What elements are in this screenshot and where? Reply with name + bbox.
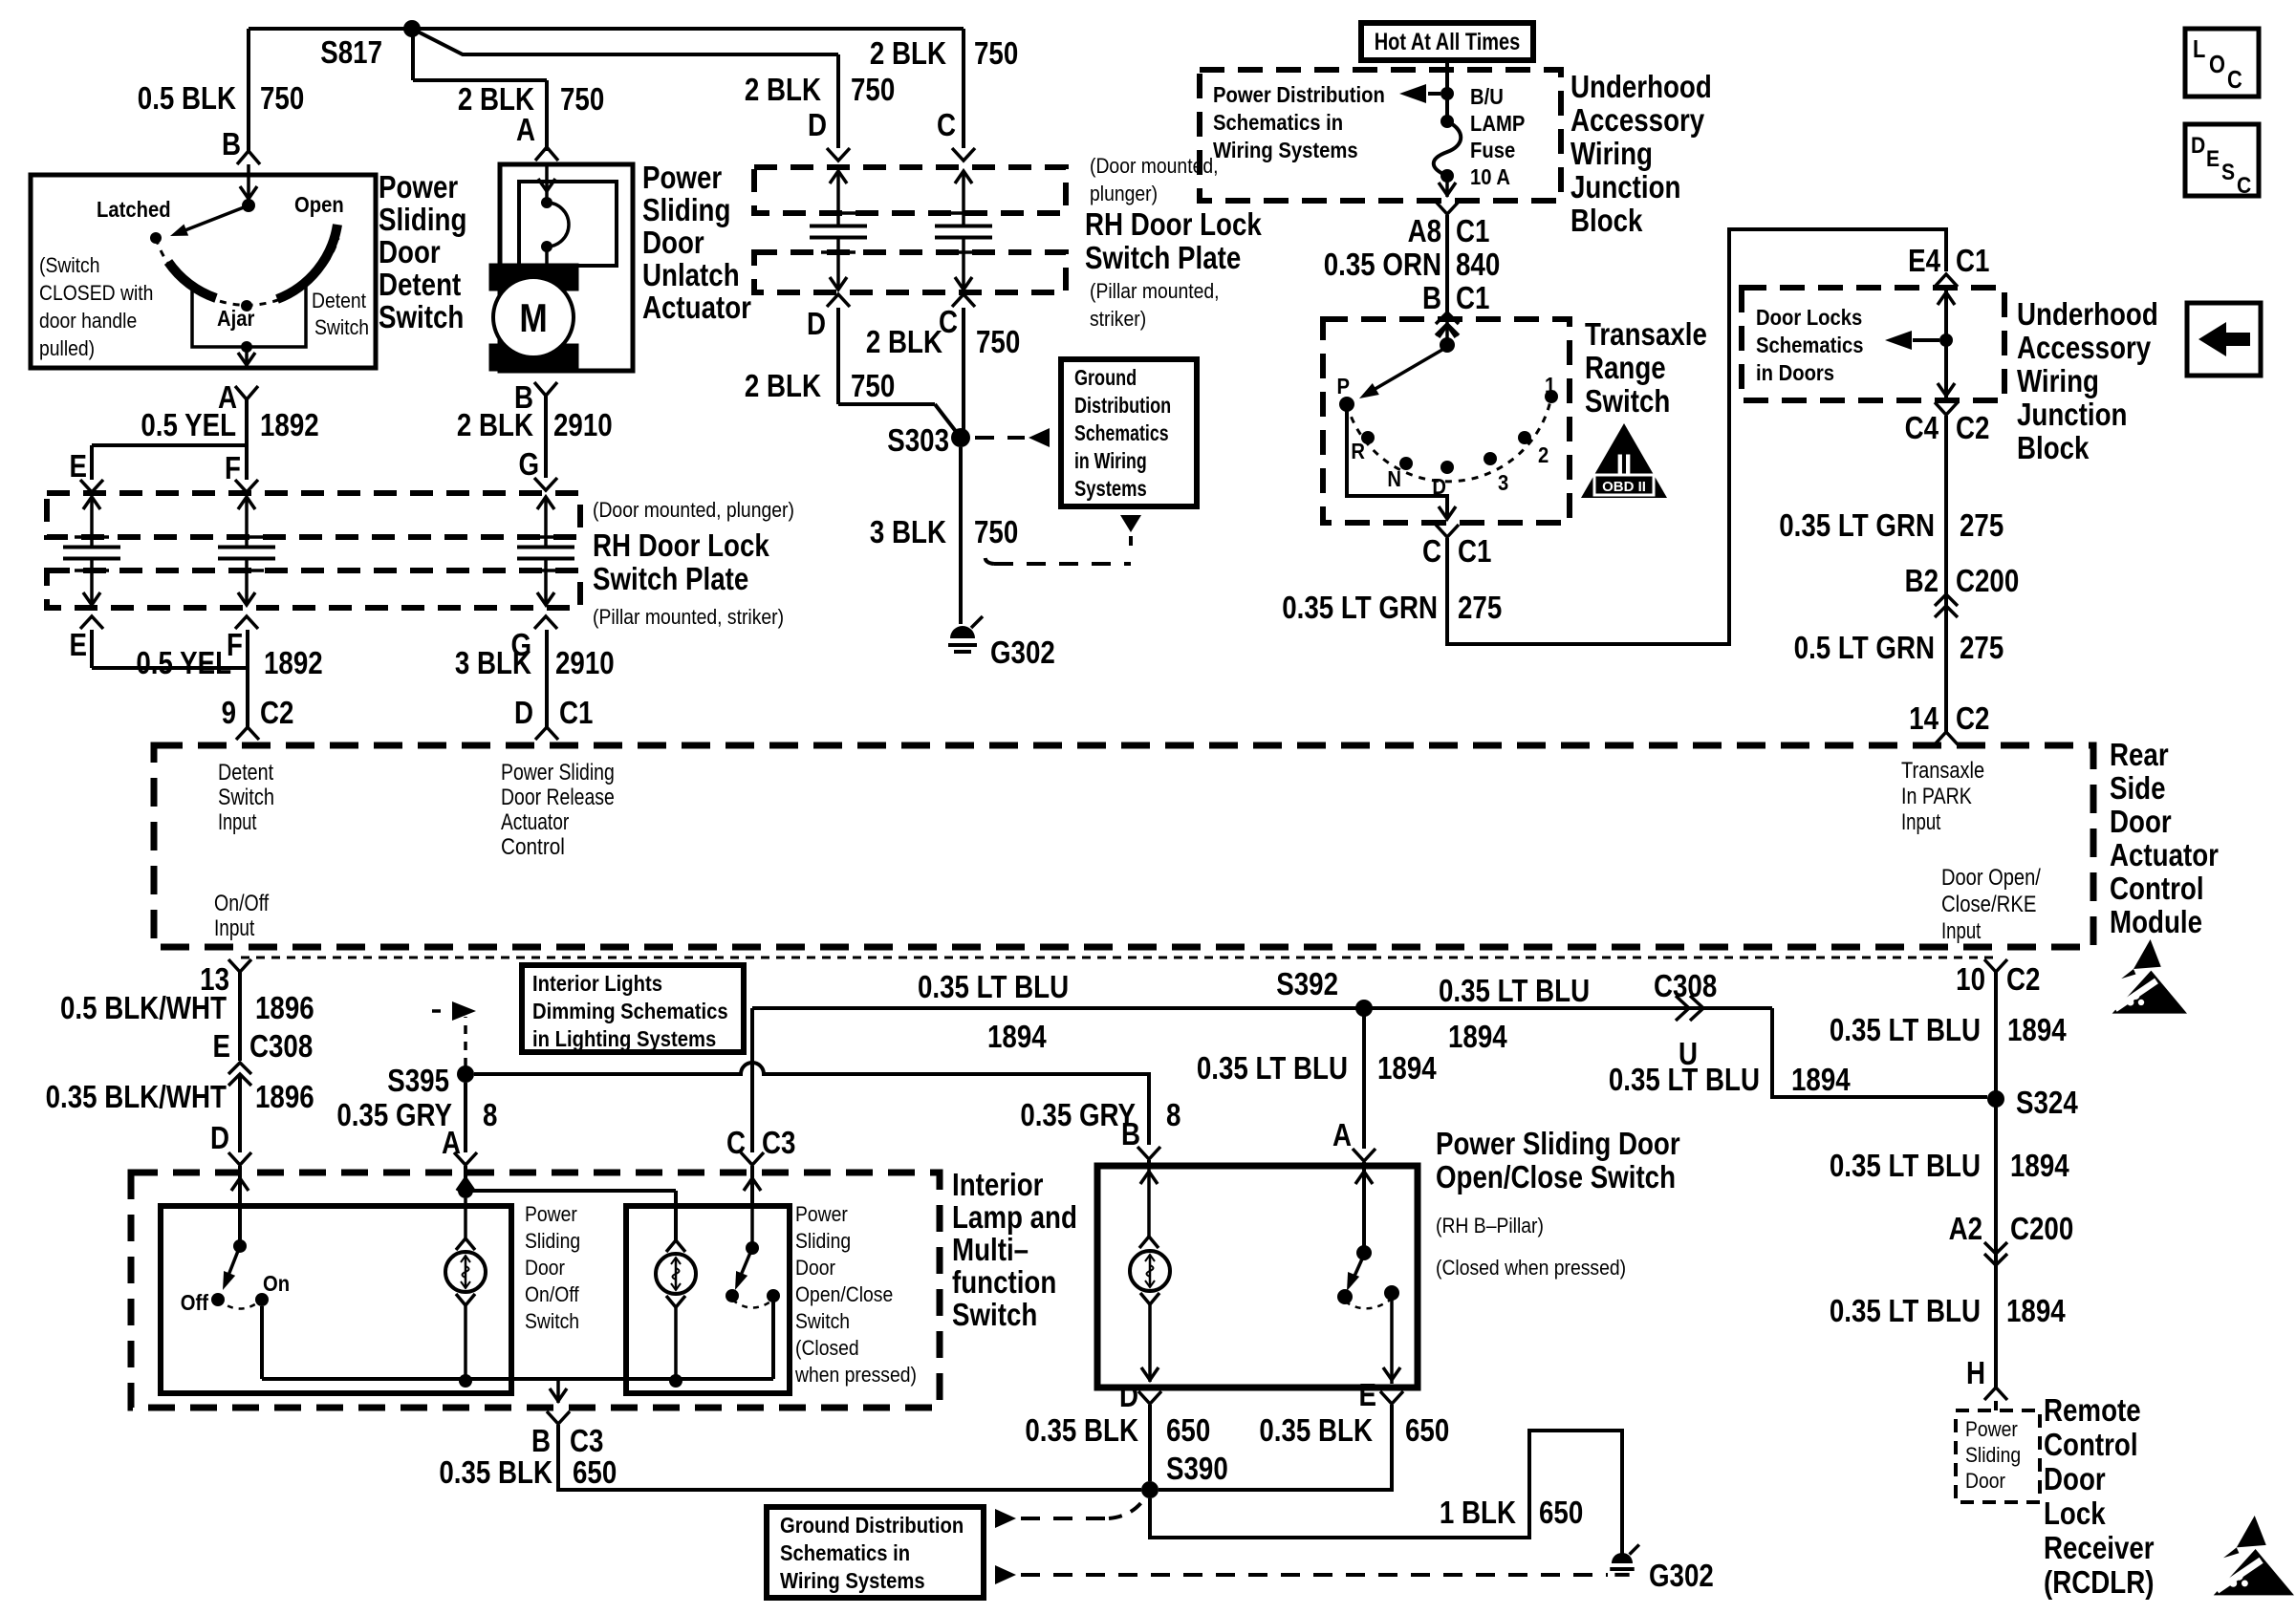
svg-text:Ground Distribution: Ground Distribution — [780, 1513, 964, 1539]
svg-text:B: B — [531, 1424, 551, 1459]
svg-text:Power: Power — [525, 1203, 577, 1226]
svg-text:Hot At All Times: Hot At All Times — [1375, 29, 1521, 55]
svg-text:A8: A8 — [1408, 214, 1441, 249]
svg-text:Control: Control — [501, 834, 565, 860]
svg-text:1894: 1894 — [1448, 1020, 1507, 1055]
svg-text:in Lighting Systems: in Lighting Systems — [532, 1026, 716, 1052]
svg-text:0.35 LT BLU: 0.35 LT BLU — [918, 970, 1069, 1005]
svg-text:LAMP: LAMP — [1470, 111, 1525, 137]
svg-text:C: C — [937, 108, 956, 143]
svg-text:Wiring Systems: Wiring Systems — [1213, 138, 1358, 163]
svg-text:C2: C2 — [260, 696, 293, 731]
svg-text:Block: Block — [1570, 204, 1643, 239]
svg-text:0.35 LT BLU: 0.35 LT BLU — [1609, 1063, 1760, 1098]
svg-text:(Closed: (Closed — [795, 1337, 859, 1360]
svg-text:1894: 1894 — [2010, 1149, 2069, 1184]
svg-text:S817: S817 — [320, 35, 382, 71]
svg-text:door handle: door handle — [39, 310, 137, 333]
svg-text:1: 1 — [1545, 373, 1555, 398]
svg-text:C1: C1 — [559, 696, 593, 731]
svg-text:750: 750 — [560, 82, 604, 118]
svg-text:840: 840 — [1456, 247, 1500, 283]
svg-text:Door: Door — [379, 235, 441, 270]
svg-text:B2: B2 — [1905, 564, 1939, 599]
svg-text:Interior Lights: Interior Lights — [532, 971, 662, 997]
svg-text:Accessory: Accessory — [2017, 331, 2151, 366]
svg-text:2910: 2910 — [553, 408, 613, 443]
svg-text:Power: Power — [1965, 1418, 2018, 1441]
svg-text:C2: C2 — [1956, 411, 1989, 446]
svg-text:O: O — [2209, 51, 2225, 78]
svg-text:8: 8 — [483, 1098, 497, 1133]
svg-text:S392: S392 — [1276, 967, 1338, 1002]
svg-text:C308: C308 — [1654, 969, 1717, 1004]
svg-text:0.5 BLK: 0.5 BLK — [138, 81, 236, 117]
svg-text:Input: Input — [1941, 918, 1982, 944]
svg-text:Switch: Switch — [314, 316, 369, 339]
svg-text:Side: Side — [2110, 771, 2166, 807]
svg-text:Actuator: Actuator — [2110, 838, 2219, 873]
svg-text:275: 275 — [1960, 631, 2004, 666]
svg-text:Systems: Systems — [1074, 476, 1147, 502]
svg-text:650: 650 — [1539, 1496, 1583, 1531]
svg-text:E: E — [70, 628, 87, 663]
svg-text:10 A: 10 A — [1470, 164, 1510, 190]
svg-text:Door: Door — [1965, 1470, 2005, 1493]
svg-text:0.35 ORN: 0.35 ORN — [1324, 247, 1441, 283]
svg-text:750: 750 — [974, 36, 1018, 72]
svg-text:G302: G302 — [990, 635, 1055, 671]
svg-text:Switch: Switch — [952, 1298, 1037, 1333]
svg-text:750: 750 — [851, 73, 895, 108]
svg-text:G302: G302 — [1649, 1559, 1714, 1594]
svg-text:Module: Module — [2110, 905, 2202, 940]
svg-text:0.35 LT GRN: 0.35 LT GRN — [1779, 508, 1935, 544]
svg-text:(RH B–Pillar): (RH B–Pillar) — [1436, 1215, 1544, 1237]
svg-text:Power: Power — [379, 170, 458, 205]
svg-text:0.5 BLK/WHT: 0.5 BLK/WHT — [60, 991, 227, 1026]
svg-text:Door Release: Door Release — [501, 785, 615, 810]
svg-text:Latched: Latched — [97, 197, 171, 223]
svg-text:(RCDLR): (RCDLR) — [2044, 1565, 2154, 1601]
svg-text:C1: C1 — [1956, 244, 1989, 279]
svg-text:Schematics in: Schematics in — [1213, 110, 1343, 136]
svg-text:Lamp and: Lamp and — [952, 1200, 1077, 1236]
svg-text:Ajar: Ajar — [217, 306, 255, 332]
svg-text:E4: E4 — [1908, 244, 1940, 279]
svg-text:Door Open/: Door Open/ — [1941, 865, 2041, 891]
svg-text:(Pillar mounted, striker): (Pillar mounted, striker) — [593, 606, 784, 629]
svg-text:Sliding: Sliding — [642, 193, 730, 228]
svg-text:E: E — [70, 449, 87, 484]
svg-text:Power: Power — [795, 1203, 848, 1226]
svg-text:Junction: Junction — [1570, 170, 1680, 205]
svg-text:H: H — [1966, 1356, 1985, 1391]
svg-text:Power Sliding Door: Power Sliding Door — [1436, 1127, 1680, 1162]
svg-text:14: 14 — [1909, 701, 1939, 737]
svg-text:C3: C3 — [570, 1424, 603, 1459]
svg-text:Detent: Detent — [379, 268, 461, 303]
svg-text:Off: Off — [181, 1290, 209, 1316]
svg-text:0.35 BLK/WHT: 0.35 BLK/WHT — [46, 1080, 227, 1115]
svg-text:Detent: Detent — [312, 290, 366, 312]
svg-text:when pressed): when pressed) — [794, 1364, 917, 1387]
svg-text:Sliding: Sliding — [379, 203, 466, 238]
svg-text:S324: S324 — [2016, 1086, 2078, 1121]
svg-text:1894: 1894 — [1791, 1063, 1851, 1098]
svg-text:Transaxle: Transaxle — [1901, 758, 1984, 784]
svg-text:RH Door Lock: RH Door Lock — [593, 528, 769, 564]
svg-text:Power Sliding: Power Sliding — [501, 760, 615, 785]
svg-text:C200: C200 — [2010, 1212, 2073, 1247]
svg-text:Underhood: Underhood — [2017, 297, 2158, 333]
svg-text:D: D — [210, 1121, 229, 1156]
svg-text:1892: 1892 — [264, 646, 323, 681]
svg-text:1892: 1892 — [260, 408, 319, 443]
svg-text:3 BLK: 3 BLK — [455, 646, 531, 681]
svg-text:2 BLK: 2 BLK — [457, 408, 533, 443]
svg-text:C: C — [2237, 173, 2251, 199]
svg-text:C1: C1 — [1458, 534, 1491, 570]
svg-text:0.35 LT BLU: 0.35 LT BLU — [1439, 974, 1590, 1009]
svg-text:750: 750 — [851, 369, 895, 404]
svg-text:Open: Open — [294, 192, 344, 218]
svg-text:function: function — [952, 1265, 1056, 1301]
svg-text:0.35 LT BLU: 0.35 LT BLU — [1830, 1013, 1981, 1048]
svg-text:F: F — [225, 451, 241, 486]
svg-text:2 BLK: 2 BLK — [745, 369, 821, 404]
svg-text:0.35 LT BLU: 0.35 LT BLU — [1197, 1051, 1348, 1087]
svg-text:1896: 1896 — [255, 1080, 314, 1115]
svg-text:Power Distribution: Power Distribution — [1213, 82, 1385, 108]
svg-text:Ground: Ground — [1074, 365, 1137, 391]
svg-text:Detent: Detent — [218, 760, 274, 785]
svg-text:750: 750 — [976, 325, 1020, 360]
svg-text:(Switch: (Switch — [39, 254, 99, 277]
svg-text:2 BLK: 2 BLK — [745, 73, 821, 108]
svg-text:Range: Range — [1585, 351, 1666, 386]
svg-text:9: 9 — [222, 696, 236, 731]
svg-text:D: D — [808, 108, 827, 143]
svg-text:0.35 BLK: 0.35 BLK — [1025, 1413, 1138, 1449]
svg-text:275: 275 — [1960, 508, 2004, 544]
svg-text:0.35 LT BLU: 0.35 LT BLU — [1830, 1149, 1981, 1184]
svg-text:S395: S395 — [387, 1064, 449, 1099]
svg-text:Wiring: Wiring — [2017, 364, 2099, 399]
svg-text:in Wiring: in Wiring — [1074, 448, 1147, 474]
svg-text:C2: C2 — [1956, 701, 1989, 737]
svg-text:2910: 2910 — [555, 646, 615, 681]
svg-text:(Door mounted, plunger): (Door mounted, plunger) — [593, 499, 794, 522]
svg-text:650: 650 — [1166, 1413, 1210, 1449]
svg-text:Open/Close Switch: Open/Close Switch — [1436, 1160, 1676, 1195]
svg-text:On/Off: On/Off — [214, 891, 270, 916]
svg-text:0.35 LT BLU: 0.35 LT BLU — [1830, 1294, 1981, 1329]
svg-text:1 BLK: 1 BLK — [1440, 1496, 1516, 1531]
svg-text:Input: Input — [218, 809, 257, 835]
svg-text:Wiring: Wiring — [1570, 137, 1653, 172]
svg-text:B: B — [1422, 281, 1441, 316]
svg-text:0.5 YEL: 0.5 YEL — [136, 646, 231, 681]
svg-text:C3: C3 — [762, 1126, 795, 1161]
svg-text:Switch Plate: Switch Plate — [593, 562, 748, 597]
svg-text:0.5 LT GRN: 0.5 LT GRN — [1794, 631, 1935, 666]
svg-text:650: 650 — [573, 1455, 617, 1491]
svg-text:In PARK: In PARK — [1901, 784, 1972, 809]
svg-text:Sliding: Sliding — [1965, 1444, 2021, 1467]
svg-text:Door: Door — [642, 226, 704, 261]
svg-text:Close/RKE: Close/RKE — [1941, 892, 2036, 917]
svg-text:Sliding: Sliding — [525, 1230, 580, 1253]
svg-text:M: M — [519, 296, 547, 341]
svg-text:Interior: Interior — [952, 1168, 1044, 1203]
svg-text:Open/Close: Open/Close — [795, 1283, 893, 1306]
svg-text:C2: C2 — [2006, 962, 2040, 998]
svg-text:0.35 LT GRN: 0.35 LT GRN — [1282, 591, 1438, 626]
svg-text:E: E — [213, 1029, 230, 1065]
svg-text:750: 750 — [974, 515, 1018, 550]
svg-text:Door: Door — [2044, 1462, 2106, 1497]
svg-text:(Pillar mounted,: (Pillar mounted, — [1090, 280, 1220, 303]
svg-text:750: 750 — [260, 81, 304, 117]
svg-text:Underhood: Underhood — [1570, 70, 1712, 105]
svg-text:1896: 1896 — [255, 991, 314, 1026]
svg-text:On: On — [263, 1271, 290, 1297]
svg-text:A: A — [516, 113, 535, 148]
svg-text:C: C — [1422, 534, 1441, 570]
svg-text:Junction: Junction — [2017, 398, 2127, 433]
svg-text:Input: Input — [1901, 809, 1941, 835]
svg-text:D: D — [1119, 1379, 1138, 1414]
svg-text:3: 3 — [1498, 470, 1508, 496]
svg-text:Switch: Switch — [525, 1310, 579, 1333]
svg-text:2: 2 — [1538, 442, 1549, 468]
svg-text:0.35 GRY: 0.35 GRY — [336, 1098, 452, 1133]
svg-text:2 BLK: 2 BLK — [870, 36, 946, 72]
svg-text:A2: A2 — [1949, 1212, 1982, 1247]
svg-text:R: R — [1351, 439, 1365, 464]
svg-text:Distribution: Distribution — [1074, 393, 1171, 419]
svg-text:A: A — [1332, 1118, 1352, 1153]
svg-text:2 BLK: 2 BLK — [866, 325, 942, 360]
svg-text:pulled): pulled) — [39, 337, 95, 360]
svg-text:10: 10 — [1956, 962, 1985, 998]
svg-text:E: E — [2206, 146, 2220, 172]
svg-text:Control: Control — [2110, 872, 2204, 907]
svg-text:Accessory: Accessory — [1570, 103, 1704, 139]
svg-text:Remote: Remote — [2044, 1393, 2141, 1429]
svg-text:Switch: Switch — [379, 300, 464, 335]
svg-text:Sliding: Sliding — [795, 1230, 851, 1253]
svg-text:0.35 GRY: 0.35 GRY — [1020, 1098, 1136, 1133]
svg-text:C200: C200 — [1956, 564, 2019, 599]
svg-text:Input: Input — [214, 915, 255, 941]
svg-text:1894: 1894 — [987, 1020, 1047, 1055]
svg-text:0.35 BLK: 0.35 BLK — [439, 1455, 552, 1491]
svg-text:Lock: Lock — [2044, 1496, 2106, 1532]
svg-text:650: 650 — [1405, 1413, 1449, 1449]
svg-text:1894: 1894 — [2006, 1294, 2066, 1329]
svg-text:S: S — [2221, 160, 2235, 185]
svg-text:RH Door Lock: RH Door Lock — [1085, 207, 1262, 243]
svg-text:Schematics: Schematics — [1074, 420, 1169, 446]
svg-text:Schematics in: Schematics in — [780, 1540, 910, 1566]
svg-text:striker): striker) — [1090, 308, 1146, 331]
svg-text:Multi–: Multi– — [952, 1233, 1029, 1268]
svg-text:C: C — [726, 1126, 746, 1161]
svg-text:Fuse: Fuse — [1470, 138, 1515, 163]
svg-text:Power: Power — [642, 161, 722, 196]
svg-text:Switch Plate: Switch Plate — [1085, 241, 1241, 276]
svg-text:275: 275 — [1458, 591, 1502, 626]
svg-text:Wiring Systems: Wiring Systems — [780, 1568, 925, 1594]
svg-text:L: L — [2193, 35, 2205, 63]
svg-text:Receiver: Receiver — [2044, 1531, 2155, 1566]
svg-text:C308: C308 — [249, 1029, 313, 1065]
svg-text:Door: Door — [2110, 805, 2172, 840]
svg-text:Block: Block — [2017, 431, 2090, 466]
svg-text:D: D — [514, 696, 533, 731]
svg-text:Control: Control — [2044, 1428, 2138, 1463]
svg-text:Unlatch: Unlatch — [642, 258, 740, 293]
svg-text:Switch: Switch — [795, 1310, 850, 1333]
svg-text:Transaxle: Transaxle — [1585, 317, 1707, 353]
svg-text:Door: Door — [795, 1257, 835, 1280]
svg-text:Actuator: Actuator — [642, 291, 751, 326]
svg-text:D: D — [807, 307, 826, 342]
svg-text:8: 8 — [1166, 1098, 1180, 1133]
svg-text:1894: 1894 — [2007, 1013, 2067, 1048]
svg-text:0.5 YEL: 0.5 YEL — [141, 408, 236, 443]
svg-text:1894: 1894 — [1377, 1051, 1437, 1087]
svg-text:On/Off: On/Off — [525, 1283, 579, 1306]
svg-text:S390: S390 — [1166, 1452, 1228, 1487]
svg-text:Switch: Switch — [218, 785, 274, 810]
svg-text:C1: C1 — [1456, 281, 1489, 316]
svg-text:CLOSED with: CLOSED with — [39, 282, 153, 305]
svg-text:B/U: B/U — [1470, 84, 1504, 110]
svg-text:D: D — [2191, 133, 2205, 159]
svg-text:G: G — [518, 447, 539, 483]
svg-text:Switch: Switch — [1585, 384, 1670, 420]
svg-text:B: B — [222, 127, 241, 162]
svg-text:OBD II: OBD II — [1602, 479, 1646, 495]
svg-text:C1: C1 — [1456, 214, 1489, 249]
svg-text:Actuator: Actuator — [501, 809, 570, 835]
svg-text:P: P — [1336, 374, 1350, 399]
svg-text:C4: C4 — [1905, 411, 1939, 446]
svg-text:Dimming Schematics: Dimming Schematics — [532, 999, 728, 1024]
svg-text:E: E — [1359, 1378, 1376, 1413]
svg-text:C: C — [2227, 66, 2242, 94]
svg-text:0.35 BLK: 0.35 BLK — [1259, 1413, 1373, 1449]
svg-text:Door: Door — [525, 1257, 565, 1280]
svg-text:plunger): plunger) — [1090, 183, 1158, 205]
svg-text:Door Locks: Door Locks — [1756, 305, 1862, 331]
svg-text:3 BLK: 3 BLK — [870, 515, 946, 550]
svg-text:in Doors: in Doors — [1756, 360, 1834, 386]
svg-text:S303: S303 — [887, 423, 949, 459]
svg-text:Rear: Rear — [2110, 738, 2169, 773]
svg-text:Schematics: Schematics — [1756, 333, 1863, 358]
svg-text:(Closed when pressed): (Closed when pressed) — [1436, 1257, 1626, 1280]
